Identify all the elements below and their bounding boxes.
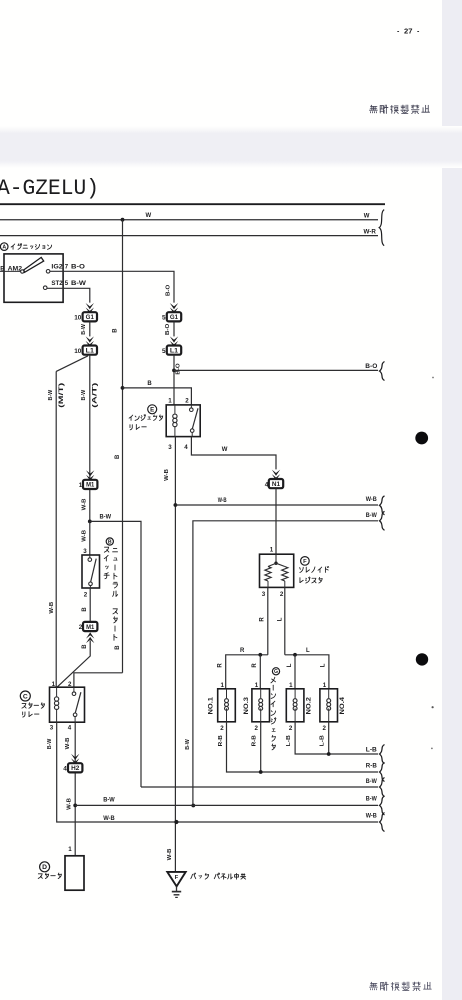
injector NO.1 box	[218, 689, 236, 722]
connector 4 N1	[269, 479, 283, 488]
neutral start switch circled B	[106, 538, 113, 545]
svg-text:L: L	[287, 663, 293, 667]
injector relay switch contacts and lever	[190, 405, 192, 408]
wire W bus	[0, 219, 378, 221]
ground location katakana (back panel center)	[191, 873, 196, 879]
arrow into connector M1 upper	[86, 470, 94, 476]
wire NO.4 down to L-B bus	[328, 722, 330, 754]
solenoid resistor pin1 stub inside box	[275, 554, 277, 563]
contact ST2	[43, 286, 47, 290]
svg-text:G1: G1	[86, 315, 95, 321]
svg-text:B-W: B-W	[47, 738, 53, 749]
ignition switch name katakana (ignition)	[11, 244, 15, 249]
wire G1 to L1 left	[89, 321, 91, 336]
node junction dot on B-W bus	[191, 804, 195, 808]
svg-text:L: L	[321, 663, 327, 667]
svg-text:M1: M1	[86, 483, 95, 489]
wire main B left to starter relay pin 2	[74, 673, 123, 687]
svg-text:W-B: W-B	[366, 814, 378, 820]
svg-text:W-B: W-B	[103, 816, 115, 822]
wire from left edge to AM2 pivot	[0, 270, 21, 272]
svg-text:B: B	[147, 381, 152, 387]
connector 2 M1	[83, 622, 97, 631]
ground stem and hatching	[176, 886, 178, 891]
wire starter relay pin4 down through H2 to starter	[74, 722, 76, 856]
wire diagonal L1 to M/T vertical	[56, 356, 88, 372]
wire relay pin4 W to N1 connector	[191, 437, 276, 470]
continuation brace W-B	[380, 496, 385, 515]
injector NO.2 coil	[294, 689, 296, 698]
wire W-R bus	[0, 235, 378, 237]
svg-text:B: B	[115, 645, 121, 650]
svg-text:R: R	[252, 663, 258, 668]
svg-text:B: B	[115, 454, 121, 459]
svg-text:W-B: W-B	[167, 849, 173, 861]
continuation brace W-B bottom	[380, 813, 385, 832]
arrow into connector G1 right	[170, 303, 178, 309]
starter relay box	[50, 687, 85, 722]
svg-text:D: D	[42, 864, 47, 871]
svg-text:-: -	[417, 29, 420, 36]
svg-text:10: 10	[74, 348, 82, 355]
svg-text:B-W: B-W	[71, 281, 86, 287]
bullet marker lower	[416, 653, 428, 665]
wire switch pin2 down to M1	[89, 588, 91, 632]
svg-text:W-B: W-B	[218, 498, 227, 504]
starter circled D	[40, 862, 50, 872]
svg-text:B-W: B-W	[48, 390, 54, 401]
injector relay box	[166, 405, 200, 437]
starter name katakana (starter)	[38, 874, 42, 879]
svg-text:W-B: W-B	[66, 798, 72, 810]
ignition switch circled A	[0, 243, 8, 251]
arrow up into connector M1	[86, 632, 94, 638]
solenoid resistor name katakana (resistor)	[300, 578, 303, 583]
ground symbol triangle F	[167, 872, 185, 887]
neutral start switch name katakana column switch	[104, 547, 109, 552]
svg-text:E: E	[150, 407, 154, 413]
svg-text:3: 3	[262, 591, 266, 598]
svg-text:F: F	[175, 875, 179, 881]
arrow into connector N1	[272, 470, 280, 476]
connector 10 L1 left	[83, 346, 97, 355]
main injectors circled G	[272, 668, 279, 675]
wire L1 right down to injector relay pin 1	[173, 355, 175, 405]
copyright text bottom (mudan fukusei kinshi)	[369, 982, 377, 990]
starter relay switch contacts and lever	[73, 687, 75, 692]
svg-text:A: A	[2, 244, 6, 250]
svg-text:A-GZELU): A-GZELU)	[0, 176, 99, 201]
solenoid resistor zigzag left	[268, 563, 276, 566]
connector 5 L1 right	[167, 346, 181, 355]
injector NO.3 box	[252, 689, 270, 722]
svg-text:B-O: B-O	[365, 364, 377, 370]
svg-text:4: 4	[265, 481, 269, 488]
svg-text:H2: H2	[71, 766, 80, 772]
svg-text:2: 2	[84, 592, 88, 599]
svg-text:W-B: W-B	[81, 530, 87, 542]
svg-text:3: 3	[50, 724, 54, 731]
node junction dot A/T wire to B-W branch	[88, 520, 92, 524]
node junction dot ground wire on W-B bus	[174, 820, 178, 824]
svg-text:R-B: R-B	[252, 735, 258, 746]
svg-text:1: 1	[289, 682, 293, 689]
neutral start switch name katakana column neutral start	[113, 549, 118, 552]
svg-text:ST2: ST2	[51, 281, 63, 287]
svg-text:NO.2: NO.2	[305, 696, 312, 714]
svg-text:5: 5	[162, 315, 166, 322]
svg-text:B-O: B-O	[176, 363, 182, 375]
wire G1 to L1 right	[173, 321, 175, 336]
arrow into connector H2	[71, 754, 79, 760]
svg-text:C: C	[23, 693, 28, 700]
svg-text:4: 4	[68, 724, 72, 731]
svg-text:G1: G1	[170, 315, 179, 321]
svg-text:W: W	[222, 447, 228, 453]
continuation brace B-W mid	[380, 778, 385, 797]
wire junction down to neutral start switch	[89, 521, 91, 555]
svg-text:4: 4	[184, 444, 188, 451]
injector NO.3 coil	[260, 689, 262, 698]
injector relay name katakana (injector)	[129, 415, 133, 420]
svg-text:L1: L1	[170, 348, 179, 354]
svg-text:W-B: W-B	[366, 497, 378, 503]
injector NO.2 box	[286, 689, 304, 722]
svg-text:B-W: B-W	[81, 324, 87, 335]
starter box	[65, 856, 84, 890]
starter relay name katakana (starter)	[22, 704, 26, 709]
svg-text:R-B: R-B	[366, 763, 378, 769]
wire NO.2 down to L-B bus	[295, 722, 378, 754]
continuation brace L-B	[380, 745, 385, 764]
wire starter relay pin3 down to W-B bottom bus	[57, 722, 378, 822]
svg-text:3: 3	[168, 444, 172, 451]
node junction dot NO.3 on R-B bus	[259, 770, 263, 774]
svg-text:B-W: B-W	[81, 390, 87, 401]
wire L distribution horizontal	[285, 655, 329, 689]
svg-text:B: B	[112, 328, 118, 333]
svg-text:B-O: B-O	[166, 284, 172, 296]
solenoid resistor circled F	[301, 557, 310, 566]
svg-text:W-B: W-B	[65, 738, 71, 750]
injector relay name katakana (relay)	[130, 425, 132, 430]
svg-text:1: 1	[79, 482, 83, 489]
wire B-O to right margin	[174, 369, 378, 371]
svg-text:1: 1	[168, 398, 172, 405]
contact IG2	[46, 270, 50, 274]
wire relay pin3 W-B down to ground	[174, 437, 176, 872]
svg-text:10: 10	[74, 315, 82, 322]
wire B-W bus from left vertical to margin	[141, 786, 378, 788]
svg-text:-: -	[397, 29, 400, 36]
svg-text:NO.3: NO.3	[243, 696, 250, 714]
wire M1 down then diagonal to starter relay pin 1	[57, 640, 90, 687]
wire NO.2 drop	[294, 655, 296, 689]
solenoid resistor zigzag right	[276, 563, 285, 566]
wire B-W segment to margin with corner down to B-W bottom bus	[193, 521, 378, 806]
connector 5 G1 right	[167, 312, 181, 321]
svg-text:2: 2	[255, 725, 259, 732]
svg-text:4: 4	[63, 766, 67, 773]
continuation brace for W / W-R buses	[379, 210, 384, 246]
svg-text:R-B: R-B	[218, 735, 224, 746]
svg-text:5: 5	[65, 281, 69, 287]
svg-text:(A/T): (A/T)	[92, 383, 98, 408]
svg-text:L: L	[277, 617, 283, 621]
svg-text:1: 1	[270, 547, 274, 554]
continuation brace R-B	[380, 763, 385, 782]
ignition switch lever	[21, 270, 24, 273]
injector NO.4 coil	[328, 689, 330, 698]
injector relay coil	[174, 405, 176, 414]
svg-text:2: 2	[323, 725, 327, 732]
svg-text:27: 27	[404, 27, 412, 36]
wire solenoid pin3 R down	[267, 587, 269, 654]
svg-text:N1: N1	[272, 482, 281, 488]
svg-text:B-W: B-W	[103, 798, 115, 804]
node junction dot B-O branch	[172, 369, 176, 373]
svg-text:W-B: W-B	[81, 499, 87, 511]
svg-text:B: B	[82, 607, 88, 612]
svg-text:B-W: B-W	[185, 739, 191, 750]
continuation brace B-O	[380, 362, 385, 381]
injector relay circled E	[148, 405, 157, 414]
starter relay coil	[56, 687, 58, 696]
wire NO.1 down to R-B bus	[227, 722, 379, 772]
node junction dot W-B line	[174, 503, 178, 507]
svg-text:W-B: W-B	[49, 602, 55, 614]
svg-text:R: R	[240, 648, 245, 654]
svg-text:2: 2	[220, 725, 224, 732]
small speck marks	[432, 377, 434, 379]
svg-text:3: 3	[83, 548, 87, 555]
wire main B vertical from W bus to starter relay	[122, 220, 124, 673]
svg-text:R: R	[260, 617, 266, 622]
svg-text:B-W: B-W	[366, 779, 377, 785]
node junction dot pin4 wire to B-W bus	[73, 804, 77, 808]
svg-text:2: 2	[185, 398, 189, 405]
neutral start switch box	[82, 555, 100, 588]
node junction dot B branch to injector relay	[121, 386, 125, 390]
solenoid resistor name katakana (solenoid)	[300, 567, 304, 572]
starter relay circled C	[20, 691, 30, 701]
svg-text:L-B: L-B	[319, 735, 325, 746]
wire R distribution horizontal	[226, 655, 268, 689]
svg-text:NO.1: NO.1	[207, 696, 214, 714]
arrow into connector L1 left	[86, 336, 94, 342]
connector 10 G1 left	[83, 312, 97, 321]
connector 1 M1	[83, 480, 97, 489]
svg-text:L: L	[306, 648, 310, 654]
node junction dot NO.3 branch	[258, 653, 262, 657]
svg-text:B-O: B-O	[71, 265, 85, 271]
wire ST2 to G1 connector (B-W)	[47, 288, 90, 302]
solenoid resistor internal junction dot	[274, 562, 277, 565]
wire IG2 to G1 connector (B-O)	[50, 271, 174, 302]
wire L1 left down (A/T path)	[89, 355, 91, 522]
title underline	[0, 203, 385, 205]
svg-text:7: 7	[65, 265, 69, 271]
wire N1 down to solenoid resistor	[275, 488, 277, 554]
arrow into connector G1 left	[86, 303, 94, 309]
svg-text:W: W	[364, 213, 370, 219]
wire M/T vertical down to starter relay pin 1	[55, 371, 57, 687]
svg-text:B-W: B-W	[366, 796, 377, 802]
bullet marker upper	[415, 432, 428, 445]
svg-text:W-R: W-R	[364, 229, 377, 235]
node junction dot NO.2 branch	[293, 653, 297, 657]
right gray gutter strip	[442, 0, 462, 1000]
svg-text:L-B: L-B	[366, 748, 378, 754]
injector NO.1 coil	[226, 689, 228, 698]
node junction dot W bus to main B vertical	[121, 218, 125, 222]
svg-text:B-W: B-W	[100, 514, 112, 520]
svg-text:1: 1	[68, 846, 72, 853]
svg-text:F: F	[303, 559, 307, 565]
svg-text:(M/T): (M/T)	[59, 383, 65, 408]
wire B-W bottom bus	[75, 804, 378, 806]
svg-text:5: 5	[162, 348, 166, 355]
svg-text:M1: M1	[86, 625, 95, 631]
copyright text top (mudan fukusei kinshi)	[369, 105, 377, 113]
svg-text:NO.4: NO.4	[339, 696, 346, 714]
continuation brace B-W	[380, 796, 385, 815]
starter relay name katakana (relay)	[23, 712, 25, 717]
svg-text:L-B: L-B	[286, 735, 292, 746]
svg-text:2: 2	[289, 725, 293, 732]
svg-text:W-B: W-B	[164, 469, 170, 481]
svg-text:B: B	[108, 539, 112, 545]
svg-text:B-W: B-W	[366, 513, 377, 519]
svg-text:1: 1	[255, 682, 259, 689]
wire NO.3 down to R-B bus	[260, 722, 262, 772]
svg-text:1: 1	[323, 682, 327, 689]
svg-text:L1: L1	[86, 348, 95, 354]
solenoid resistor box	[260, 554, 294, 587]
wire B branch to injector relay pin 2	[123, 388, 192, 405]
svg-text:IG2: IG2	[51, 265, 63, 271]
main injectors name katakana vertical (main injector)	[271, 677, 276, 683]
svg-text:G: G	[274, 669, 278, 675]
injector NO.4 box	[320, 689, 338, 722]
svg-text:2: 2	[280, 591, 284, 598]
wire solenoid pin2 L down	[284, 587, 286, 654]
continuation brace B-W	[380, 511, 385, 530]
svg-text:R: R	[218, 663, 224, 668]
svg-text:B: B	[82, 644, 88, 649]
svg-text:2: 2	[79, 624, 83, 631]
wire B-W from junction right then down to B-W bus	[90, 521, 141, 787]
node junction dot NO.4 on L-B bus	[327, 752, 331, 756]
wire NO.3 drop	[259, 655, 261, 689]
svg-text:1: 1	[221, 682, 225, 689]
connector 4 H2	[68, 763, 82, 772]
svg-text:W: W	[146, 213, 152, 219]
ignition switch box	[4, 254, 63, 302]
wire W-B to right margin	[175, 504, 378, 506]
arrow into connector L1 right	[170, 336, 178, 342]
svg-text:B-O: B-O	[165, 323, 171, 335]
neutral start switch contacts and lever	[89, 555, 91, 558]
